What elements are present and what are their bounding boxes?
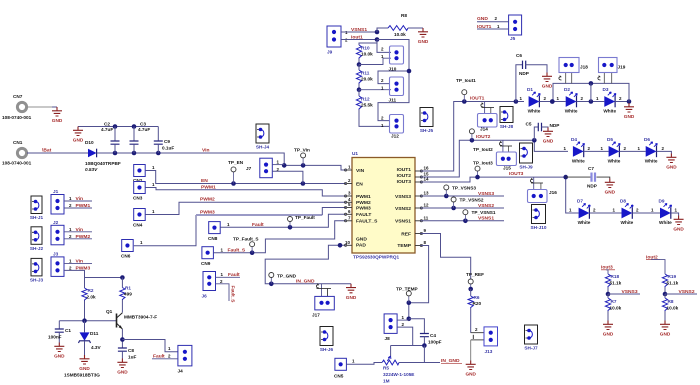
shunt SH-J6 bbox=[320, 327, 333, 346]
svg-text:VSNS2: VSNS2 bbox=[679, 289, 695, 295]
svg-text:D7: D7 bbox=[577, 199, 583, 204]
test point TP_Iout2 bbox=[469, 129, 493, 152]
svg-text:D2: D2 bbox=[564, 87, 570, 92]
connector CN6 bbox=[121, 240, 143, 259]
wire D6 to ground bbox=[657, 151, 672, 153]
svg-text:GND: GND bbox=[542, 84, 553, 89]
wire GND stub J5 bbox=[477, 21, 509, 23]
svg-text:CN6: CN6 bbox=[121, 254, 131, 259]
wire Iout1 J9 bbox=[341, 37, 379, 42]
svg-text:GND: GND bbox=[73, 138, 84, 143]
svg-text:GND: GND bbox=[52, 118, 63, 123]
wire PWM3 net bbox=[134, 208, 346, 246]
jumper J18 bbox=[559, 58, 588, 84]
svg-text:R2: R2 bbox=[88, 288, 94, 293]
test point TP_Vin bbox=[294, 148, 310, 166]
capacitor C2 bbox=[101, 122, 120, 154]
jumper J17 bbox=[312, 284, 334, 318]
svg-text:GND: GND bbox=[418, 39, 429, 44]
svg-text:VSNS3: VSNS3 bbox=[622, 289, 638, 295]
svg-text:TP_Vin: TP_Vin bbox=[294, 148, 310, 153]
svg-text:GND: GND bbox=[477, 16, 488, 22]
connector J9 bbox=[327, 26, 348, 55]
svg-text:10.0k: 10.0k bbox=[361, 52, 373, 57]
svg-text:PWM2: PWM2 bbox=[200, 197, 215, 203]
svg-text:CN9: CN9 bbox=[201, 261, 211, 266]
svg-text:TP_VSNS3: TP_VSNS3 bbox=[452, 186, 476, 191]
wire IOUT1 net bbox=[420, 99, 524, 171]
svg-text:PAD: PAD bbox=[356, 243, 366, 249]
svg-text:10.0k: 10.0k bbox=[667, 306, 679, 311]
capacitor C1 bbox=[48, 321, 71, 343]
svg-text:PWM1: PWM1 bbox=[201, 185, 216, 191]
svg-text:R8: R8 bbox=[401, 13, 407, 18]
svg-text:D8: D8 bbox=[620, 199, 626, 204]
wire D4 D5 bbox=[584, 150, 609, 152]
wire D1 D2 bbox=[539, 99, 565, 104]
test point TP_EN bbox=[228, 160, 244, 184]
svg-text:Fault: Fault bbox=[252, 222, 264, 228]
svg-text:Fault_S: Fault_S bbox=[231, 286, 236, 303]
svg-text:R20: R20 bbox=[473, 301, 482, 306]
LED D5 bbox=[601, 137, 627, 163]
svg-text:TP_REF: TP_REF bbox=[466, 272, 484, 277]
svg-text:PWM3: PWM3 bbox=[200, 210, 215, 216]
wire Q1 base net bbox=[59, 318, 116, 323]
svg-text:White: White bbox=[608, 158, 621, 163]
wire VSNS3 net bbox=[420, 194, 504, 199]
svg-text:TP_Iout2: TP_Iout2 bbox=[473, 147, 493, 152]
wire Iout1 to J10 pin2 and bus bbox=[359, 40, 411, 121]
connector CN3 bbox=[133, 182, 155, 201]
svg-text:SH-J8: SH-J8 bbox=[500, 124, 514, 129]
svg-text:R12: R12 bbox=[361, 97, 370, 102]
svg-text:TP_Fault: TP_Fault bbox=[295, 215, 315, 220]
ground bbox=[73, 127, 84, 143]
svg-text:10BQ040TRPBF: 10BQ040TRPBF bbox=[85, 161, 121, 166]
svg-text:VSNS1: VSNS1 bbox=[351, 27, 367, 33]
jumper J12 bbox=[381, 115, 404, 139]
svg-text:C3: C3 bbox=[140, 122, 146, 127]
svg-text:CN2: CN2 bbox=[133, 178, 143, 183]
jumper J10 bbox=[381, 46, 404, 72]
svg-text:C2: C2 bbox=[104, 122, 110, 127]
wire J4 pin2 stub bbox=[152, 358, 178, 360]
svg-text:R1: R1 bbox=[125, 286, 131, 291]
svg-text:NDP: NDP bbox=[587, 184, 597, 189]
wire J2 pin1 stub bbox=[64, 231, 92, 233]
svg-text:GND: GND bbox=[346, 295, 357, 300]
svg-text:108-0740-001: 108-0740-001 bbox=[2, 115, 32, 120]
svg-text:IOUT1: IOUT1 bbox=[470, 96, 485, 102]
svg-text:J10: J10 bbox=[389, 67, 397, 72]
svg-text:IN_GND: IN_GND bbox=[296, 279, 315, 285]
svg-text:11: 11 bbox=[424, 215, 429, 220]
svg-text:IOUT3: IOUT3 bbox=[509, 171, 524, 177]
LED D3 bbox=[596, 87, 622, 114]
svg-text:White: White bbox=[645, 158, 658, 163]
test point TP_Fault bbox=[288, 215, 316, 227]
shunt SH-J3 bbox=[31, 258, 42, 276]
resistor R6 bbox=[468, 289, 481, 333]
svg-text:VSNS1: VSNS1 bbox=[395, 219, 411, 225]
wire C4 to IN_GND bbox=[424, 346, 440, 363]
zener D11 bbox=[64, 321, 102, 378]
ground bbox=[660, 321, 671, 337]
wire J3 pin2 to R2 R1 bbox=[64, 270, 125, 279]
potentiometer R5 bbox=[382, 356, 424, 384]
svg-text:C9: C9 bbox=[164, 139, 170, 144]
svg-text:SH-J10: SH-J10 bbox=[531, 225, 547, 230]
shunt SH-J9 bbox=[520, 143, 533, 163]
connector CN1 bbox=[2, 140, 32, 166]
svg-text:C4: C4 bbox=[430, 333, 436, 338]
wire CN5 to R5 bbox=[347, 363, 383, 365]
svg-text:D11: D11 bbox=[90, 331, 99, 336]
LED D2 bbox=[557, 87, 584, 114]
svg-text:R7: R7 bbox=[611, 299, 617, 304]
svg-text:J15: J15 bbox=[503, 166, 511, 171]
svg-text:NDP: NDP bbox=[519, 71, 529, 76]
ground bbox=[52, 107, 63, 123]
wire TEMP net bbox=[407, 246, 429, 322]
svg-text:PWM2: PWM2 bbox=[356, 200, 371, 206]
svg-text:J8: J8 bbox=[385, 336, 391, 341]
svg-text:REF: REF bbox=[401, 231, 411, 237]
ground bbox=[673, 216, 684, 232]
LED D1 bbox=[520, 87, 547, 114]
svg-text:CN5: CN5 bbox=[334, 374, 344, 379]
svg-text:NDP: NDP bbox=[550, 123, 560, 128]
connector J6 bbox=[202, 272, 224, 299]
ground bbox=[603, 321, 614, 337]
connector CN4 bbox=[133, 209, 155, 228]
svg-text:GND: GND bbox=[117, 370, 128, 375]
test point TP_Iout1 bbox=[456, 78, 476, 102]
wire VSNS1 J9 bbox=[341, 30, 379, 35]
jumper J11 bbox=[381, 77, 404, 103]
svg-text:SH-J9: SH-J9 bbox=[519, 165, 533, 170]
wire D5 D6 bbox=[619, 150, 645, 152]
jumper J13 bbox=[471, 327, 498, 354]
svg-text:J7: J7 bbox=[246, 166, 252, 171]
svg-text:VSNS1: VSNS1 bbox=[478, 216, 494, 222]
svg-text:4.7uF: 4.7uF bbox=[138, 127, 150, 132]
svg-text:J18: J18 bbox=[580, 65, 588, 70]
svg-text:GND: GND bbox=[603, 332, 614, 337]
svg-text:IN_GND: IN_GND bbox=[441, 358, 460, 364]
svg-text:White: White bbox=[565, 109, 578, 114]
svg-text:D1: D1 bbox=[527, 87, 533, 92]
ground bbox=[346, 284, 357, 300]
ground bbox=[54, 343, 65, 359]
test point TP_VSNS2 bbox=[451, 197, 484, 208]
svg-text:White: White bbox=[572, 158, 585, 163]
svg-text:White: White bbox=[578, 220, 591, 225]
wire VSNS2 net bbox=[420, 206, 504, 211]
svg-text:Iout1: Iout1 bbox=[351, 35, 363, 41]
ground bbox=[624, 103, 635, 119]
svg-text:GND: GND bbox=[673, 227, 684, 232]
resistor R10 bbox=[356, 45, 373, 67]
svg-text:1M: 1M bbox=[383, 379, 390, 384]
svg-text:J6: J6 bbox=[202, 294, 208, 299]
wire D7 D8 bbox=[589, 212, 621, 214]
svg-text:J12: J12 bbox=[391, 134, 399, 139]
ground bbox=[117, 359, 128, 375]
wire IOUT3 net bbox=[420, 175, 578, 213]
svg-text:IOUT2: IOUT2 bbox=[397, 173, 412, 179]
svg-text:1SMB5918BT3G: 1SMB5918BT3G bbox=[64, 373, 100, 378]
shunt SH-J7 bbox=[525, 325, 538, 344]
svg-text:10: 10 bbox=[345, 240, 351, 245]
svg-text:1uF: 1uF bbox=[128, 355, 136, 360]
connector CN2 bbox=[133, 165, 155, 184]
wire J8 pin1 bbox=[397, 319, 409, 321]
svg-text:U1: U1 bbox=[352, 151, 358, 156]
wire Fault net bbox=[220, 214, 346, 229]
svg-text:Fault_S: Fault_S bbox=[228, 248, 246, 254]
svg-text:Vin: Vin bbox=[202, 148, 210, 154]
svg-text:GND: GND bbox=[54, 354, 65, 359]
jumper J8 bbox=[384, 314, 404, 341]
wire J7 pin1 bbox=[272, 164, 284, 166]
connector J2 bbox=[51, 220, 72, 245]
connector J1 bbox=[51, 189, 72, 214]
capacitor C5 bbox=[526, 122, 560, 141]
connector CN5 bbox=[334, 358, 355, 378]
LED D6 bbox=[638, 137, 665, 163]
wire D9 to ground bbox=[671, 213, 679, 216]
svg-text:108-0740-001: 108-0740-001 bbox=[2, 161, 32, 166]
wire PWM1 net bbox=[145, 188, 346, 197]
svg-text:D3: D3 bbox=[603, 87, 609, 92]
wire J6 pin2 bbox=[216, 284, 230, 301]
capacitor C4 bbox=[409, 319, 442, 346]
svg-text:TPS92630QPWPRQ1: TPS92630QPWPRQ1 bbox=[353, 255, 400, 260]
svg-text:J5: J5 bbox=[510, 36, 516, 41]
svg-text:TP_Fault_S: TP_Fault_S bbox=[233, 237, 259, 242]
svg-text:4.7uF: 4.7uF bbox=[101, 127, 113, 132]
wire J7 pin2 to EN bbox=[272, 171, 303, 183]
connector CN9 bbox=[201, 247, 224, 266]
svg-text:51.1k: 51.1k bbox=[610, 281, 622, 286]
svg-text:D5: D5 bbox=[607, 137, 613, 142]
wire VBat bbox=[27, 152, 88, 154]
shunt SH-J4 bbox=[256, 124, 269, 143]
svg-text:SH-J5: SH-J5 bbox=[420, 128, 434, 133]
svg-text:J17: J17 bbox=[312, 313, 320, 318]
svg-text:IOUT1: IOUT1 bbox=[477, 24, 492, 30]
test point TP_GND bbox=[269, 273, 297, 284]
svg-text:CN7: CN7 bbox=[13, 94, 23, 99]
svg-text:100pF: 100pF bbox=[428, 340, 442, 345]
svg-text:TP_Iout3: TP_Iout3 bbox=[473, 161, 493, 166]
test point TP_TEMP bbox=[396, 287, 418, 303]
svg-text:C6: C6 bbox=[516, 53, 522, 58]
resistor R12 bbox=[356, 90, 390, 127]
svg-text:J16: J16 bbox=[549, 190, 557, 195]
LED D4 bbox=[564, 137, 591, 163]
svg-text:J1: J1 bbox=[53, 189, 59, 194]
svg-text:GND: GND bbox=[465, 372, 476, 377]
test point TP_VSNS1 bbox=[463, 210, 496, 221]
LED D7 bbox=[569, 199, 596, 226]
wire J6 pin1 stub bbox=[216, 276, 241, 278]
shunt SH-J1 bbox=[31, 196, 42, 214]
svg-text:IOUT1: IOUT1 bbox=[397, 167, 412, 173]
resistor R11 bbox=[356, 65, 373, 92]
wire PWM2 net bbox=[145, 202, 346, 214]
svg-text:2.0k: 2.0k bbox=[87, 295, 97, 300]
svg-text:IOUT3: IOUT3 bbox=[397, 179, 412, 185]
op-amp U1 TPS92630QPWPRQ1 bbox=[345, 151, 430, 260]
shunt SH-J8 bbox=[500, 107, 513, 123]
svg-text:TP_Iout1: TP_Iout1 bbox=[456, 78, 476, 83]
shunt SH-J2 bbox=[31, 227, 42, 245]
svg-text:R8: R8 bbox=[668, 299, 674, 304]
ground bbox=[79, 355, 90, 371]
diode D10 bbox=[85, 140, 121, 172]
svg-text:EN: EN bbox=[201, 178, 208, 184]
svg-text:0.53V: 0.53V bbox=[85, 167, 98, 172]
capacitor C8 bbox=[118, 348, 137, 360]
connector CN7 bbox=[2, 94, 32, 120]
svg-text:CN3: CN3 bbox=[133, 196, 143, 201]
resistor R8 bbox=[662, 294, 678, 321]
svg-text:Fault: Fault bbox=[228, 272, 240, 278]
svg-text:20.0k: 20.0k bbox=[361, 77, 373, 82]
svg-text:CN4: CN4 bbox=[133, 223, 143, 228]
wire VSNS1 net bbox=[420, 219, 504, 224]
svg-text:D9: D9 bbox=[659, 199, 665, 204]
connector J3 bbox=[51, 251, 72, 276]
wire J1 pin2 stub bbox=[64, 207, 92, 209]
svg-text:J14: J14 bbox=[480, 127, 488, 132]
svg-text:C8: C8 bbox=[128, 348, 134, 353]
wire J18 J19 bypass bus bbox=[550, 81, 629, 104]
wire REF net bbox=[420, 234, 470, 279]
ground bbox=[465, 361, 476, 377]
wire J10 pin1 bbox=[359, 58, 391, 64]
svg-text:SH-J7: SH-J7 bbox=[524, 346, 538, 351]
connector J5 bbox=[509, 15, 522, 41]
ground bbox=[543, 128, 554, 144]
svg-text:TP_TEMP: TP_TEMP bbox=[396, 287, 418, 292]
svg-text:J4: J4 bbox=[178, 369, 184, 374]
node VSNS3 bbox=[608, 289, 640, 295]
svg-text:TP_EN: TP_EN bbox=[228, 160, 244, 165]
svg-text:TP_VSNS2: TP_VSNS2 bbox=[460, 198, 484, 203]
test point TP_REF bbox=[466, 272, 484, 291]
wire Q1 emitter to C8 bbox=[120, 329, 125, 348]
svg-text:J9: J9 bbox=[327, 50, 333, 55]
svg-text:SH-J1: SH-J1 bbox=[30, 215, 44, 220]
wire J8 pin2 to R5 bbox=[391, 327, 427, 356]
svg-text:SH-J2: SH-J2 bbox=[30, 246, 44, 251]
svg-text:SH-J3: SH-J3 bbox=[30, 277, 44, 282]
svg-text:FAULT: FAULT bbox=[356, 212, 371, 218]
test point TP_VSNS3 bbox=[444, 185, 477, 196]
svg-text:GND: GND bbox=[356, 237, 367, 243]
svg-text:D4: D4 bbox=[571, 137, 577, 142]
wire IOUT2 net bbox=[420, 138, 568, 177]
wire D2 D3 bbox=[577, 99, 605, 104]
svg-text:TP_VSNS1: TP_VSNS1 bbox=[472, 210, 496, 215]
svg-text:100nF: 100nF bbox=[48, 335, 62, 340]
svg-text:CN1: CN1 bbox=[13, 140, 23, 145]
jumper J15 bbox=[496, 140, 516, 170]
svg-text:3224W-1-105E: 3224W-1-105E bbox=[383, 372, 414, 377]
wire J11 pin1 bbox=[359, 89, 391, 91]
resistor R19 bbox=[662, 274, 678, 296]
wire J2 pin2 stub bbox=[64, 238, 92, 240]
svg-text:10.0k: 10.0k bbox=[610, 306, 622, 311]
svg-text:GND: GND bbox=[543, 139, 554, 144]
svg-text:SH-J6: SH-J6 bbox=[320, 347, 334, 352]
svg-text:IOUT2: IOUT2 bbox=[476, 134, 491, 140]
svg-text:White: White bbox=[603, 109, 616, 114]
svg-text:VSNS2: VSNS2 bbox=[478, 203, 494, 209]
wire J3 pin1 stub bbox=[64, 262, 92, 264]
jumper J7 bbox=[246, 158, 280, 178]
wire emitter to J4 bbox=[122, 340, 177, 352]
svg-text:VSNS3: VSNS3 bbox=[395, 194, 411, 200]
svg-text:51.1k: 51.1k bbox=[667, 281, 679, 286]
wire D3 to ground bbox=[615, 99, 631, 104]
svg-text:VSNS2: VSNS2 bbox=[395, 206, 411, 212]
ground bbox=[666, 154, 677, 170]
transistor Q1 MMBT3904 bbox=[106, 309, 157, 329]
node VSNS2 bbox=[665, 289, 697, 295]
wire GND PAD net bbox=[265, 243, 351, 286]
svg-text:Q1: Q1 bbox=[106, 309, 113, 314]
svg-text:TEMP: TEMP bbox=[397, 243, 411, 249]
svg-text:10.0k: 10.0k bbox=[394, 32, 406, 37]
wire J13 to ground bbox=[470, 340, 472, 361]
svg-text:R11: R11 bbox=[361, 71, 370, 76]
svg-text:White: White bbox=[659, 220, 672, 225]
svg-text:PWM1: PWM1 bbox=[356, 194, 371, 200]
svg-text:EN: EN bbox=[356, 182, 363, 188]
jumper J19 bbox=[598, 58, 626, 84]
wire capacitor rail bbox=[78, 124, 158, 129]
svg-text:D6: D6 bbox=[644, 137, 650, 142]
svg-text:White: White bbox=[621, 220, 634, 225]
svg-text:0.1uF: 0.1uF bbox=[162, 146, 174, 151]
svg-text:R6: R6 bbox=[474, 295, 480, 300]
shunt SH-J5 bbox=[420, 108, 433, 127]
svg-text:White: White bbox=[528, 109, 541, 114]
ground bbox=[605, 179, 616, 195]
wire IOUT1 stub J5 bbox=[477, 28, 509, 30]
svg-text:12: 12 bbox=[424, 203, 430, 208]
capacitor C7 bbox=[566, 166, 610, 189]
svg-text:J2: J2 bbox=[53, 220, 59, 225]
LED D8 bbox=[613, 199, 640, 226]
svg-text:GND: GND bbox=[605, 190, 616, 195]
wire Fault_S net bbox=[213, 221, 346, 255]
connector CN8 bbox=[208, 222, 230, 241]
wire CN7 to ground bbox=[27, 106, 57, 108]
svg-text:499: 499 bbox=[124, 292, 132, 297]
svg-text:VSNS3: VSNS3 bbox=[478, 191, 494, 197]
svg-text:VIN: VIN bbox=[356, 168, 365, 174]
resistor R7 bbox=[605, 294, 621, 321]
connector J4 bbox=[168, 345, 192, 373]
test point TP_Fault_S bbox=[233, 237, 259, 253]
wire D8 D9 bbox=[632, 212, 660, 214]
